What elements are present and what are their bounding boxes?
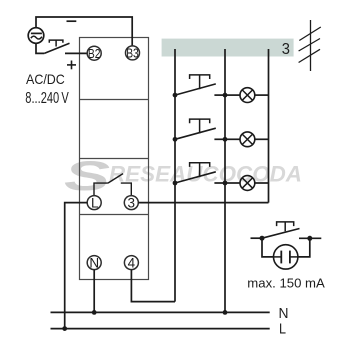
wire L to line L	[65, 203, 88, 329]
svg-text:B3: B3	[126, 46, 139, 61]
row 2: lamp E2	[225, 132, 269, 147]
AC/DC source G1	[28, 28, 44, 44]
cable hatch	[299, 20, 321, 71]
wire N down	[93, 270, 95, 313]
terminal B2	[87, 46, 101, 61]
wire top (source to B3)	[36, 17, 132, 46]
svg-text:AC/DC: AC/DC	[26, 71, 65, 87]
terminal L	[87, 196, 101, 211]
svg-text:L: L	[91, 196, 99, 211]
svg-text:8...240 V: 8...240 V	[25, 90, 69, 107]
svg-text:B2: B2	[88, 46, 101, 61]
row 3: pushbutton S3	[173, 163, 228, 186]
svg-text:3: 3	[282, 41, 290, 58]
svg-text:L: L	[279, 321, 286, 338]
pushbutton S0 blade	[44, 43, 69, 53]
wire right drop	[268, 49, 270, 203]
svg-text:N: N	[279, 305, 289, 322]
line N	[51, 311, 270, 313]
wire terminal 4 to left drop	[131, 270, 175, 302]
minus sign	[67, 20, 77, 22]
terminal 3	[124, 196, 138, 211]
wire source to switch	[36, 43, 44, 53]
wire middle drop	[224, 49, 226, 312]
svg-text:N: N	[89, 255, 99, 270]
row 3: lamp E3	[225, 176, 269, 191]
junction dot N line	[92, 310, 97, 315]
junction dot middle drop / N line	[223, 310, 228, 315]
plus sign	[67, 61, 76, 70]
legend: illuminated pushbutton	[251, 222, 322, 257]
relay contact K1	[94, 174, 131, 196]
svg-text:max. 150 mA: max. 150 mA	[247, 277, 325, 291]
svg-text:3: 3	[128, 196, 136, 211]
row 1: pushbutton S1	[173, 75, 228, 98]
svg-text:4: 4	[128, 255, 136, 270]
wire terminal 3 right	[138, 202, 268, 204]
wire left drop	[174, 49, 176, 302]
legend: glow lamp	[274, 245, 298, 269]
wire switch to B2	[65, 52, 87, 54]
bus bar	[162, 39, 294, 57]
row 1: lamp E1	[225, 88, 269, 103]
terminal 4	[124, 255, 138, 270]
pushbutton S0 actuator	[49, 40, 63, 46]
terminal B3	[126, 46, 140, 61]
device U1 outline	[80, 38, 149, 280]
junction dot L line	[62, 326, 67, 331]
row 2: pushbutton S2	[173, 119, 228, 142]
line L	[51, 328, 270, 330]
terminal N	[87, 255, 101, 270]
